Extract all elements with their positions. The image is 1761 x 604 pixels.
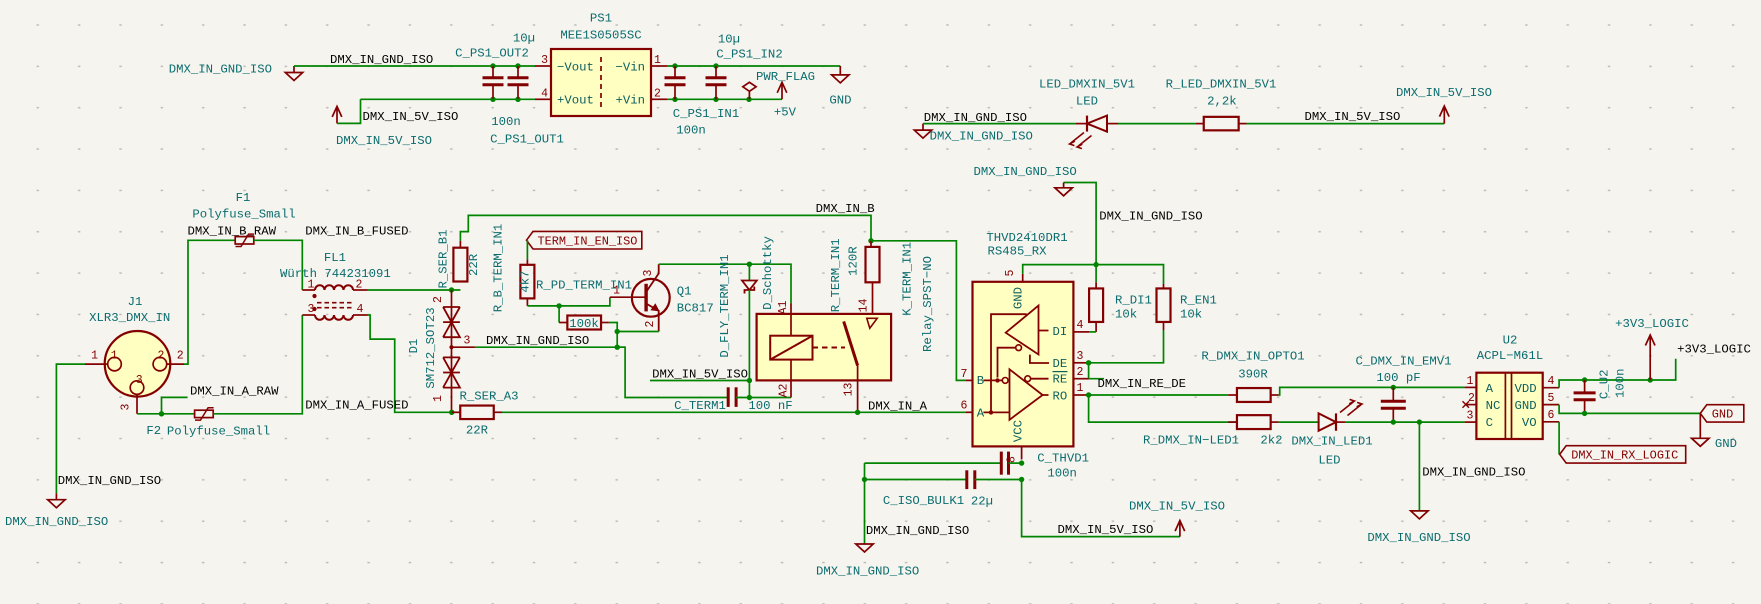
svg-text:D_Schottky: D_Schottky: [761, 236, 775, 310]
U2 pin 5 GND: [1543, 392, 1559, 405]
svg-text:C_PS1_OUT1: C_PS1_OUT1: [490, 133, 564, 147]
J1 pin 2: [167, 350, 184, 364]
junction dot C_U2 top: [1582, 377, 1587, 382]
svg-text:GND: GND: [1712, 407, 1733, 421]
THVD pin 3 DE: [1073, 350, 1088, 363]
power symbol +3V3_LOGIC: [1615, 317, 1689, 380]
svg-text:100n: 100n: [676, 124, 706, 138]
svg-text:DMX_IN_5V_ISO: DMX_IN_5V_ISO: [336, 134, 432, 148]
svg-text:R_DI1: R_DI1: [1115, 294, 1152, 308]
svg-text:R_EN1: R_EN1: [1180, 294, 1217, 308]
resistor R_LED_DMXIN_5V1 2,2k: [1166, 77, 1277, 130]
wire fuse F1 to FL1 pin1 (DMX_IN_B_FUSED): [254, 240, 302, 290]
svg-text:NC: NC: [1486, 399, 1501, 413]
svg-text:D_FLY_TERM_IN1: D_FLY_TERM_IN1: [718, 254, 732, 357]
svg-text:DMX_IN_B_FUSED: DMX_IN_B_FUSED: [305, 225, 408, 239]
svg-text:−Vin: −Vin: [615, 61, 645, 75]
junction dot D1 bottom: [449, 410, 454, 415]
svg-text:FL1: FL1: [324, 251, 346, 265]
wire DMX_IN_5V_ISO stub: [650, 380, 749, 382]
wire FL1 pin4 to DMX_IN_A_FUSED: [368, 315, 452, 412]
svg-text:MEE1S0505SC: MEE1S0505SC: [560, 29, 641, 43]
svg-text:R_DMX_IN_OPTO1: R_DMX_IN_OPTO1: [1201, 349, 1304, 363]
svg-text:2: 2: [654, 87, 661, 100]
THVD pin 7 B: [961, 368, 973, 381]
svg-text:DMX_IN_GND_ISO: DMX_IN_GND_ISO: [816, 565, 919, 579]
svg-text:C_U2: C_U2: [1597, 370, 1611, 400]
THVD pin 1 RO: [1073, 382, 1088, 395]
power symbol DMX_IN_GND_ISO (bottom left): [5, 493, 108, 529]
junction dot C_U2 bottom: [1582, 411, 1587, 416]
common-mode choke FL1 Wurth 744231091: [280, 251, 391, 320]
svg-text:DMX_IN_GND_ISO: DMX_IN_GND_ISO: [1367, 531, 1470, 545]
U2 pin 3: [1465, 410, 1477, 423]
svg-text:13: 13: [843, 383, 856, 397]
svg-text:100 nF: 100 nF: [748, 399, 792, 413]
capacitor C_PS1_OUT2 10u: [455, 32, 535, 100]
svg-text:DMX_IN_B_RAW: DMX_IN_B_RAW: [188, 225, 277, 239]
svg-text:2: 2: [158, 350, 165, 363]
wire FL1 pin2 to R_SER_B1 and D1: [368, 289, 461, 291]
svg-text:22R: 22R: [467, 253, 481, 276]
fuse F2 Polyfuse_Small: [146, 408, 270, 439]
junction dot +3V3 arrow: [1648, 377, 1653, 382]
wire D_FLY bottom to C_TERM1 wire: [748, 381, 750, 398]
svg-text:22R: 22R: [466, 424, 489, 438]
wire RO branch down to R_DMX_IN-LED1: [1089, 395, 1237, 422]
svg-text:1: 1: [613, 285, 620, 298]
svg-text:A2: A2: [778, 384, 791, 398]
svg-text:DMX_IN_GND_ISO: DMX_IN_GND_ISO: [169, 63, 272, 77]
svg-text:DMX_IN_GND_ISO: DMX_IN_GND_ISO: [930, 130, 1033, 144]
wire VCC node to DMX_IN_5V_ISO: [1022, 480, 1180, 537]
wire DMX_IN_GND_ISO to PS1 pin 3: [294, 65, 535, 67]
svg-text:C_TERM1: C_TERM1: [674, 399, 726, 413]
wire TERM_IN_EN_ISO to R_B_TERM_IN1: [526, 240, 528, 259]
capacitor C_PS1_IN1 100n: [665, 66, 740, 138]
svg-text:2: 2: [1077, 366, 1084, 379]
svg-text:DMX_IN_GND_ISO: DMX_IN_GND_ISO: [486, 334, 589, 348]
svg-text:2k2: 2k2: [1260, 434, 1282, 448]
svg-text:C_THVD1: C_THVD1: [1037, 452, 1089, 466]
svg-text:22µ: 22µ: [971, 495, 993, 509]
J1 pin 3: [120, 394, 138, 413]
svg-text:3: 3: [1077, 350, 1084, 363]
svg-text:DMX_IN_RX_LOGIC: DMX_IN_RX_LOGIC: [1571, 448, 1678, 462]
U2 pin 6 VO: [1543, 409, 1559, 422]
fuse F1 Polyfuse_Small: [192, 191, 295, 247]
svg-text:DMX_IN_GND_ISO: DMX_IN_GND_ISO: [1422, 466, 1525, 480]
svg-text:VCC: VCC: [1012, 420, 1026, 442]
svg-text:R_DMX_IN−LED1: R_DMX_IN−LED1: [1143, 434, 1239, 448]
junction dot D_FLY / 5V: [747, 378, 752, 383]
svg-text:ACPL−M61L: ACPL−M61L: [1477, 349, 1543, 363]
wire DE to RE: [1089, 363, 1104, 379]
THVD pin 8 VCC: [1006, 446, 1022, 463]
svg-text:F1: F1: [236, 191, 251, 205]
svg-text:1: 1: [111, 350, 118, 363]
wire Q1 collector to relay coil A1: [659, 264, 791, 303]
svg-text:120R: 120R: [846, 246, 860, 276]
TVS diode D1 SM712_SOT23: [407, 290, 460, 412]
wire LED to U2 pin3: [1345, 421, 1465, 423]
wire pin6 to DMX_IN_RX_LOGIC: [1558, 422, 1560, 455]
svg-text:DMX_IN_5V_ISO: DMX_IN_5V_ISO: [1396, 86, 1492, 100]
svg-text:100n: 100n: [1614, 368, 1628, 398]
svg-text:DMX_IN_5V_ISO: DMX_IN_5V_ISO: [363, 110, 459, 124]
svg-text:XLR3_DMX_IN: XLR3_DMX_IN: [89, 311, 170, 325]
wire R_EN1 to DE/RE node: [1089, 330, 1164, 363]
capacitor C_TERM1 100 nF: [674, 387, 792, 413]
wire J1 pin2 up to fuse F1 (DMX_IN_B_RAW): [184, 240, 235, 364]
svg-text:1: 1: [1467, 375, 1474, 388]
wire J1 pin1 to ground: [56, 364, 85, 493]
capacitor C_PS1_IN2 10u: [706, 33, 783, 100]
wire DMX_IN_A bus: [502, 411, 966, 413]
svg-text:6: 6: [1547, 409, 1554, 422]
svg-text:2: 2: [1468, 392, 1475, 405]
PS1 pin 2 +Vin: [615, 87, 667, 107]
svg-text:DMX_IN_GND_ISO: DMX_IN_GND_ISO: [58, 474, 161, 488]
svg-text:U2: U2: [1503, 333, 1518, 347]
wire junction to 100k: [558, 306, 560, 323]
svg-text:VDD: VDD: [1514, 382, 1536, 396]
svg-text:Q1: Q1: [677, 285, 692, 299]
svg-text:7: 7: [961, 368, 968, 381]
svg-text:3: 3: [464, 335, 471, 348]
svg-text:390R: 390R: [1238, 367, 1268, 381]
relay K_TERM_IN1 Relay_SPST-NO: [757, 242, 935, 380]
svg-text:Polyfuse_Small: Polyfuse_Small: [167, 425, 270, 439]
svg-text:5: 5: [1004, 269, 1017, 276]
svg-text:2: 2: [432, 296, 445, 303]
svg-text:3: 3: [136, 374, 143, 387]
svg-text:A1: A1: [777, 301, 790, 315]
svg-text:BC817: BC817: [677, 302, 714, 316]
svg-text:2: 2: [177, 350, 184, 363]
wire emitter junction down to gnd wire: [616, 332, 618, 348]
svg-text:SM712_SOT23: SM712_SOT23: [424, 307, 438, 388]
svg-text:10k: 10k: [1180, 308, 1202, 322]
svg-text:14: 14: [858, 299, 871, 313]
capacitor C_ISO_BULK1 22u: [865, 463, 1022, 509]
power symbol DMX_IN_5V_ISO (bottom): [1129, 500, 1225, 537]
svg-text:6: 6: [961, 400, 968, 413]
wire R_B_TERM_IN1 to Q1 base: [527, 297, 610, 306]
LED DMX_IN_LED1: [1291, 399, 1372, 467]
svg-text:+5V: +5V: [774, 105, 797, 119]
power symbol +5V: [774, 82, 797, 119]
capacitor C_PS1_OUT1 100n: [490, 66, 564, 147]
svg-text:C_DMX_IN_EMV1: C_DMX_IN_EMV1: [1356, 355, 1452, 369]
power symbol DMX_IN_GND_ISO (LED row): [914, 124, 1033, 144]
THVD pin 4 DI: [1073, 319, 1089, 332]
svg-text:3: 3: [120, 403, 133, 410]
svg-text:DMX_IN_RE_DE: DMX_IN_RE_DE: [1098, 377, 1187, 391]
svg-text:3: 3: [541, 54, 548, 67]
relay pin A1: [777, 301, 791, 336]
U2 pin 4 VDD: [1543, 375, 1559, 388]
PS1 pin 1 -Vin: [615, 54, 667, 75]
PS1 pin 4 +Vout: [535, 87, 594, 107]
wire pin4 to +3V3_LOGIC: [1559, 359, 1676, 388]
svg-text:4: 4: [1077, 319, 1084, 332]
resistor R_DMX_IN_OPTO1 390R: [1201, 349, 1304, 402]
svg-text:DI: DI: [1053, 325, 1068, 339]
wire to ground (U2 input side): [1418, 422, 1420, 511]
svg-text:4k7: 4k7: [519, 271, 533, 293]
resistor R_EN1 10k: [1096, 265, 1217, 330]
junction dot gnd branch: [1417, 419, 1422, 424]
svg-text:LED_DMXIN_5V1: LED_DMXIN_5V1: [1039, 77, 1135, 91]
global label DMX_IN_RX_LOGIC: [1560, 446, 1686, 463]
svg-text:10µ: 10µ: [513, 32, 535, 46]
svg-text:1: 1: [432, 395, 445, 402]
svg-text:Relay_SPST−NO: Relay_SPST−NO: [921, 256, 935, 352]
wire LED to resistor: [1118, 123, 1196, 125]
junction dot D_FLY top: [747, 262, 752, 267]
wire J1 pin3 to fuse F2 (DMX_IN_A_RAW): [137, 413, 195, 415]
svg-text:DMX_IN_GND_ISO: DMX_IN_GND_ISO: [330, 53, 433, 67]
resistor R_SER_B1 22R: [437, 229, 481, 288]
schottky diode D_FLY_TERM_IN1: [718, 236, 775, 380]
wire gnd staircase to C_TERM1: [617, 347, 728, 397]
svg-text:DMX_IN_5V_ISO: DMX_IN_5V_ISO: [652, 367, 748, 381]
junction dot base/100k: [556, 303, 561, 308]
wire 100k to emitter junction: [609, 323, 617, 332]
svg-text:K_TERM_IN1: K_TERM_IN1: [901, 242, 915, 316]
svg-text:3: 3: [642, 269, 655, 276]
wire R_LED1 to LED: [1279, 421, 1319, 423]
power symbol DMX_IN_5V_ISO (left): [332, 99, 432, 148]
junction dot gnd/resistors: [1093, 262, 1098, 267]
ic U1 THVD2410DR1 RS485_RX: [973, 231, 1074, 446]
capacitor C_U2 100n: [1574, 368, 1628, 413]
svg-text:+3V3_LOGIC: +3V3_LOGIC: [1677, 343, 1751, 357]
resistor R_DI1 10k: [1089, 265, 1152, 332]
capacitor C_DMX_IN_EMV1 100 pF: [1356, 355, 1452, 423]
svg-text:GND: GND: [1715, 437, 1737, 451]
connector J1 XLR3_DMX_IN: [89, 295, 170, 397]
svg-text:1: 1: [654, 54, 661, 67]
D1 pin 3 to DMX_IN_GND_ISO: [449, 335, 475, 350]
svg-text:DMX_IN_A: DMX_IN_A: [868, 399, 928, 413]
resistor R_TERM_IN1 120R: [829, 238, 879, 318]
global label GND: [1700, 405, 1744, 422]
svg-text:GND: GND: [829, 94, 851, 108]
LED LED_DMXIN_5V1: [1039, 77, 1135, 148]
power symbol DMX_IN_5V_ISO (right): [1396, 86, 1492, 124]
svg-text:R_LED_DMXIN_5V1: R_LED_DMXIN_5V1: [1166, 77, 1277, 91]
optocoupler U2 ACPL-M61L: [1476, 333, 1543, 439]
svg-text:RO: RO: [1053, 389, 1068, 403]
wire R_DI1 to THVD pin4 DI: [1089, 331, 1096, 333]
THVD pin 6 A: [961, 400, 973, 413]
svg-text:DMX_IN_5V_ISO: DMX_IN_5V_ISO: [1129, 500, 1225, 514]
wire fuse F2 to FL1 pin3: [213, 315, 302, 414]
svg-text:DMX_IN_LED1: DMX_IN_LED1: [1291, 435, 1372, 449]
wire resistor to DMX_IN_5V_ISO: [1247, 123, 1445, 125]
junction dot pin8/C_THVD1: [1019, 460, 1024, 465]
junction dot emitter/100k: [615, 329, 620, 334]
svg-text:100k: 100k: [569, 317, 599, 331]
svg-text:2,2k: 2,2k: [1207, 95, 1237, 109]
svg-text:4: 4: [357, 303, 364, 316]
svg-text:A: A: [977, 406, 985, 420]
svg-text:R_TERM_IN1: R_TERM_IN1: [829, 238, 843, 312]
wire Q1 emitter to gnd branch: [617, 331, 659, 333]
svg-text:A: A: [1486, 382, 1494, 396]
PS1 pin 3 -Vout: [535, 54, 594, 75]
junction dot R_SER_B1/D1: [449, 287, 454, 292]
svg-text:+Vout: +Vout: [557, 94, 594, 108]
svg-text:100 pF: 100 pF: [1376, 371, 1420, 385]
power flag PWR_FLAG: [743, 70, 815, 99]
svg-text:5: 5: [1547, 392, 1554, 405]
wire +Vin rail: [667, 98, 782, 100]
svg-text:PWR_FLAG: PWR_FLAG: [756, 70, 815, 84]
power symbol DMX_IN_GND_ISO (above THVD): [973, 165, 1096, 265]
svg-text:DMX_IN_GND_ISO: DMX_IN_GND_ISO: [973, 165, 1076, 179]
junction dot gnd wire: [615, 345, 620, 350]
junction dot C_ISO_BULK1 right: [1019, 477, 1024, 482]
svg-text:PS1: PS1: [590, 12, 612, 26]
junction dots on input rails: [672, 63, 751, 102]
svg-text:DMX_IN_GND_ISO: DMX_IN_GND_ISO: [866, 524, 969, 538]
resistor R_DMX_IN-LED1 2k2: [1143, 415, 1283, 447]
junction dot C_EMV bottom: [1391, 419, 1396, 424]
wire THVD pin5 to DMX_IN_GND_ISO: [1023, 265, 1096, 274]
svg-text:RE: RE: [1053, 373, 1068, 387]
svg-text:C_PS1_OUT2: C_PS1_OUT2: [455, 47, 529, 61]
svg-text:GND: GND: [1514, 399, 1536, 413]
svg-text:DMX_IN_A_RAW: DMX_IN_A_RAW: [190, 385, 279, 399]
svg-text:DMX_IN_B: DMX_IN_B: [816, 202, 875, 216]
svg-text:DE: DE: [1053, 357, 1068, 371]
svg-text:B: B: [977, 374, 984, 388]
wire gnd to LED: [923, 123, 1076, 125]
svg-text:2: 2: [356, 279, 363, 292]
power symbol DMX_IN_GND_ISO (far right bottom): [1367, 511, 1470, 545]
svg-text:Würth 744231091: Würth 744231091: [280, 267, 391, 281]
wire pin5 to GND label: [1559, 405, 1700, 414]
wire -Vin rail to GND: [667, 65, 840, 67]
svg-text:−Vout: −Vout: [557, 61, 594, 75]
svg-text:TERM_IN_EN_ISO: TERM_IN_EN_ISO: [538, 234, 638, 248]
svg-text:DMX_IN_A_FUSED: DMX_IN_A_FUSED: [305, 398, 408, 412]
svg-text:10k: 10k: [1115, 308, 1137, 322]
svg-text:GND: GND: [1012, 287, 1026, 309]
wire R_SER_B1 to DMX_IN_B bus: [460, 215, 871, 240]
svg-text:1: 1: [91, 350, 98, 363]
wire R_OPTO to U2 pin1: [1279, 387, 1465, 395]
junction dot C_EMV top: [1391, 385, 1396, 390]
svg-text:1: 1: [1077, 382, 1084, 395]
power symbol GND (top right): [829, 66, 851, 108]
resistor R_SER_A3 22R: [452, 390, 519, 438]
svg-text:VO: VO: [1522, 416, 1537, 430]
svg-text:DMX_IN_5V_ISO: DMX_IN_5V_ISO: [1305, 110, 1401, 124]
power symbol DMX_IN_GND_ISO (top left): [169, 63, 303, 81]
svg-text:RS485_RX: RS485_RX: [987, 245, 1047, 259]
svg-text:3: 3: [1467, 410, 1474, 423]
svg-text:C_PS1_IN1: C_PS1_IN1: [673, 107, 739, 121]
transistor Q1 BC817: [610, 264, 714, 331]
svg-text:R_B_TERM_IN1: R_B_TERM_IN1: [492, 224, 506, 313]
svg-text:C_ISO_BULK1: C_ISO_BULK1: [883, 494, 964, 508]
svg-text:3: 3: [308, 303, 315, 316]
power symbol DMX_IN_GND_ISO (bottom middle): [816, 544, 919, 579]
svg-text:+3V3_LOGIC: +3V3_LOGIC: [1615, 317, 1689, 331]
svg-text:100n: 100n: [491, 115, 521, 129]
resistor R_B_TERM_IN1 4k7: [492, 224, 535, 313]
wire +Vout rail: [361, 98, 536, 100]
THVD pin 2 RE: [1073, 366, 1088, 379]
junction dots on -Vout rail: [490, 63, 520, 102]
svg-text:DMX_IN_GND_ISO: DMX_IN_GND_ISO: [1099, 209, 1202, 223]
junction dot RO: [1086, 392, 1091, 397]
wire DMX_IN_B to THVD pin B: [871, 241, 966, 381]
junction dot C_ISO_BULK1 left: [862, 477, 867, 482]
svg-text:D1: D1: [407, 339, 421, 354]
svg-text:DMX_IN_GND_ISO: DMX_IN_GND_ISO: [5, 515, 108, 529]
svg-text:LED: LED: [1318, 453, 1340, 467]
svg-text:J1: J1: [128, 295, 143, 309]
relay pin A2: [778, 360, 792, 398]
svg-text:100n: 100n: [1047, 467, 1077, 481]
power symbol GND (right): [1692, 413, 1737, 450]
svg-text:Polyfuse_Small: Polyfuse_Small: [192, 208, 295, 222]
svg-text:F2: F2: [146, 424, 161, 438]
THVD pin 5 GND: [1004, 269, 1023, 281]
wire RO to R_DMX_IN_OPTO1: [1089, 394, 1229, 396]
junction dot relay pin13 on DMX_IN_A: [855, 410, 860, 415]
relay pin 13: [843, 366, 858, 413]
svg-text:+Vin: +Vin: [615, 94, 645, 108]
svg-text:C: C: [1486, 416, 1493, 430]
U2 pin 1: [1465, 375, 1477, 388]
svg-text:10µ: 10µ: [718, 33, 740, 47]
resistor R_PD_TERM_IN1 100k: [536, 279, 632, 332]
svg-text:LED: LED: [1076, 95, 1098, 109]
svg-text:4: 4: [1547, 375, 1554, 388]
J1 pin 1: [85, 350, 108, 364]
global label TERM_IN_EN_ISO: [527, 231, 642, 249]
svg-text:DMX_IN_5V_ISO: DMX_IN_5V_ISO: [1058, 523, 1154, 537]
svg-text:1: 1: [308, 279, 315, 292]
junction dot DMX_IN_A_RAW label stub: [159, 397, 188, 416]
svg-text:R_SER_B1: R_SER_B1: [437, 229, 451, 288]
svg-text:R_SER_A3: R_SER_A3: [459, 390, 518, 404]
junction dot C_TERM1 wire: [747, 395, 752, 400]
capacitor C_THVD1 100n: [865, 452, 1089, 481]
svg-text:2: 2: [644, 320, 657, 327]
wire DMX_IN_GND_ISO (middle): [475, 346, 625, 348]
dc-dc converter PS1 MEE1S0505SC: [551, 12, 651, 117]
svg-text:4: 4: [541, 87, 548, 100]
junction dot DE: [1086, 360, 1091, 365]
wire caps to ground: [864, 480, 866, 544]
U2 pin 2 no-connect: [1463, 392, 1477, 408]
svg-text:C_PS1_IN2: C_PS1_IN2: [716, 48, 782, 62]
svg-text:THVD2410DR1: THVD2410DR1: [986, 231, 1067, 245]
